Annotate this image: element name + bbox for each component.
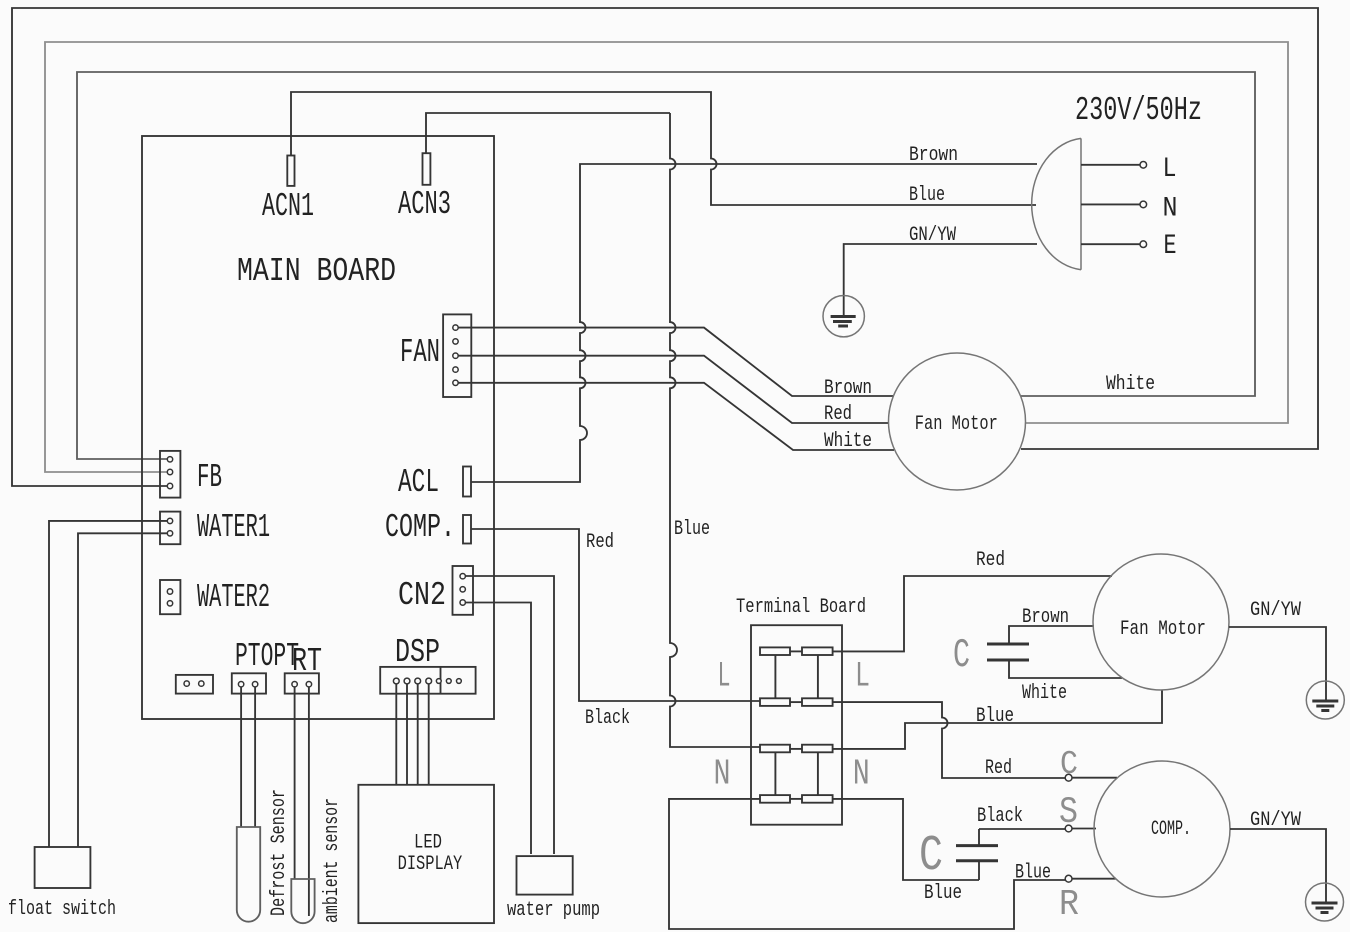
svg-text:Blue: Blue (909, 184, 945, 207)
svg-text:R: R (1059, 884, 1079, 925)
svg-text:L: L (855, 657, 870, 697)
svg-text:Brown: Brown (824, 377, 872, 400)
wire terminal row3 to fan motor2 blue (833, 690, 1162, 749)
connector CN2 (453, 566, 474, 615)
svg-text:Black: Black (977, 805, 1023, 828)
svg-text:Blue: Blue (976, 705, 1014, 728)
terminal link bars L group (775, 655, 818, 698)
wire outer loop FB pin3 to fan motor (frame 1) (12, 8, 1318, 486)
fan motor 1 circle (889, 353, 1026, 490)
svg-text:ACL: ACL (398, 464, 439, 501)
ambient sensor capsule (291, 879, 314, 923)
svg-text:DSP: DSP (395, 634, 440, 671)
wire terminal row4 left around bottom to compressor R (669, 799, 1065, 929)
svg-text:LED: LED (414, 832, 442, 855)
wire middle loop FB pin2 to fan motor (frame 2) (45, 42, 1288, 472)
wire inner loop FB pin1 to fan motor (frame 3) (77, 72, 1255, 459)
svg-text:DISPLAY: DISPLAY (398, 853, 463, 876)
svg-text:GN/YW: GN/YW (1250, 599, 1301, 622)
svg-text:S: S (1059, 792, 1078, 834)
svg-text:MAIN BOARD: MAIN BOARD (237, 253, 396, 290)
svg-text:Black: Black (585, 707, 630, 730)
ground symbol (comp) (1306, 883, 1344, 921)
fan motor 2 circle (1093, 554, 1229, 690)
svg-text:Red: Red (586, 531, 614, 554)
wire WATER1 pin2 to float switch (78, 533, 167, 847)
plug prong L (1081, 164, 1140, 166)
svg-text:C: C (919, 828, 943, 885)
svg-text:White: White (1022, 682, 1067, 705)
ground symbol (plug) (823, 296, 864, 337)
svg-text:ambient sensor: ambient sensor (321, 798, 344, 923)
svg-text:L: L (718, 657, 731, 697)
wire terminal row1 to fan motor2 red (833, 576, 1112, 651)
wire GN/YW to ground (844, 244, 1037, 316)
svg-text:Terminal Board: Terminal Board (736, 596, 866, 619)
svg-text:RT: RT (292, 643, 322, 680)
svg-text:PTOPT: PTOPT (235, 638, 299, 675)
terminal board box (751, 625, 842, 825)
terminal lugs row1 (760, 647, 833, 655)
svg-text:Blue: Blue (674, 518, 710, 541)
wire GN/YW fan2 to ground (1229, 627, 1326, 684)
water pump box (517, 856, 573, 895)
wire terminal row4 right to capacitor (833, 799, 979, 880)
compressor circle (1094, 761, 1230, 897)
compressor terminal R (1065, 875, 1072, 882)
wire ACN1 to plug N (blue) (291, 92, 1036, 205)
capacitor C (fan motor 2) (987, 626, 1122, 678)
svg-text:WATER1: WATER1 (197, 509, 270, 546)
wire black to S (979, 828, 1065, 830)
svg-text:Brown: Brown (909, 144, 958, 167)
svg-text:L: L (1163, 154, 1177, 185)
connector ACN1 (287, 156, 294, 186)
plug prong N (1081, 203, 1140, 205)
wire fan brown (458, 328, 894, 396)
connector COMP. (463, 515, 471, 544)
connector WATER1 (160, 512, 180, 545)
wire fan red (458, 356, 889, 423)
connector FAN (443, 314, 471, 397)
svg-text:GN/YW: GN/YW (1250, 809, 1301, 832)
terminal link bars N group (775, 752, 818, 795)
svg-text:N: N (714, 753, 731, 794)
wire red/black: COMP. to terminal board L (471, 529, 760, 701)
svg-text:N: N (853, 753, 870, 794)
svg-text:CN2: CN2 (398, 577, 446, 614)
svg-text:COMP.: COMP. (1151, 818, 1191, 841)
svg-text:Brown: Brown (1022, 606, 1069, 629)
terminal lugs row3 (760, 745, 833, 753)
wire ACN3 to terminal board N (blue vertical) (426, 113, 760, 747)
svg-text:FAN: FAN (400, 334, 440, 371)
wire ambient sensor leads (295, 687, 309, 916)
LED display box (358, 785, 494, 923)
connector FB (160, 451, 180, 498)
terminal lugs row2 (760, 698, 833, 706)
terminal lugs row4 (760, 795, 833, 803)
svg-text:ACN3: ACN3 (398, 186, 451, 223)
svg-text:float switch: float switch (8, 898, 116, 921)
wire terminal row2 to compressor C (red) (833, 702, 1065, 778)
svg-text:FB: FB (197, 459, 222, 496)
svg-text:COMP.: COMP. (385, 509, 455, 546)
defrost sensor capsule (237, 827, 260, 922)
wire CN2 pin1 to water pump (465, 576, 554, 854)
svg-text:N: N (1163, 194, 1178, 225)
wire defrost sensor leads (241, 687, 255, 827)
connector spare 2pin (176, 675, 213, 694)
svg-text:Blue: Blue (1015, 862, 1051, 885)
plug prong E (1081, 243, 1140, 245)
connector ACL (463, 467, 471, 497)
compressor terminal C (1065, 774, 1072, 781)
svg-text:water pump: water pump (507, 899, 600, 922)
svg-text:C: C (1060, 746, 1078, 783)
svg-text:White: White (1106, 373, 1155, 396)
wire WATER1 pin1 to float switch (49, 521, 167, 847)
capacitor C (compressor) (956, 829, 998, 880)
float switch box (35, 847, 91, 888)
svg-text:Red: Red (985, 757, 1012, 780)
svg-text:E: E (1164, 231, 1177, 262)
svg-text:230V/50Hz: 230V/50Hz (1075, 92, 1202, 129)
wire CN2 pin3 to water pump (465, 603, 531, 855)
main board outline (142, 136, 494, 719)
wire GN/YW comp to ground (1230, 829, 1326, 886)
svg-text:WATER2: WATER2 (197, 579, 270, 616)
svg-text:Red: Red (824, 403, 852, 426)
svg-text:Red: Red (976, 549, 1005, 572)
connector PTOPT (232, 673, 266, 693)
svg-text:ACN1: ACN1 (262, 188, 314, 225)
svg-text:Blue: Blue (924, 882, 962, 905)
svg-text:Defrost Sensor: Defrost Sensor (268, 789, 291, 916)
connector ACN3 (423, 153, 431, 185)
svg-text:C: C (953, 633, 970, 679)
connector DSP (380, 667, 475, 694)
svg-text:Fan Motor: Fan Motor (915, 413, 998, 436)
plug body (1032, 138, 1081, 269)
ground symbol (fan2) (1306, 681, 1344, 719)
wire fan white (458, 383, 894, 450)
svg-text:Fan Motor: Fan Motor (1120, 618, 1206, 641)
wires DSP to LED display (396, 684, 428, 785)
connector RT (285, 673, 319, 693)
connector WATER2 (160, 580, 180, 614)
compressor terminal S (1065, 825, 1072, 832)
wire brown: plug L to ACL via vertical x580 (471, 164, 1037, 482)
svg-text:White: White (824, 430, 872, 453)
